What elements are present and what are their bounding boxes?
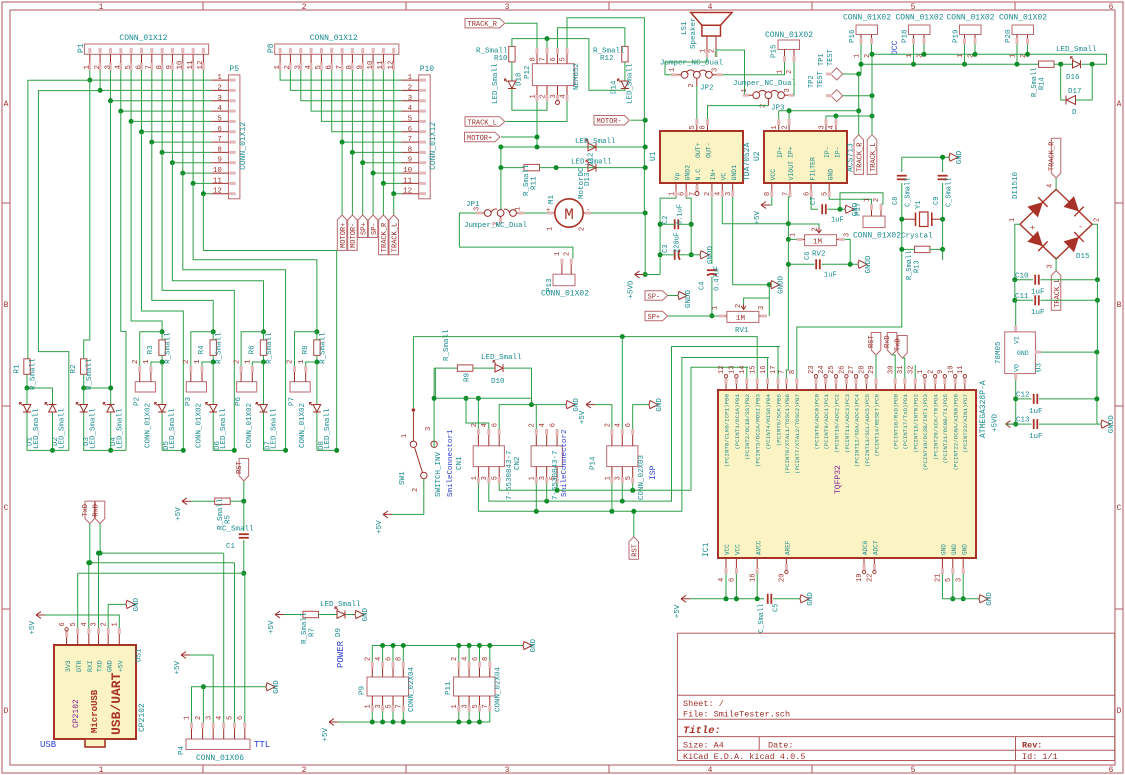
wire LED D18 loop to P12 pin2	[512, 89, 547, 111]
svg-text:3: 3	[818, 125, 826, 129]
connector P1 CONN_01X12	[84, 44, 208, 54]
svg-text:R_Small: R_Small	[216, 332, 224, 364]
svg-text:6: 6	[729, 578, 737, 582]
svg-text:6: 6	[679, 192, 687, 196]
wire MOTOR+ junction	[501, 136, 537, 138]
capacitor C4 0.47uF	[707, 269, 717, 271]
junction at 1061,64	[1058, 62, 1063, 67]
wire U2 IP- pins to TRACK_L column	[826, 116, 872, 119]
junction at 337,450	[334, 448, 339, 453]
wire P12 pin6 loop to R12 top	[558, 28, 625, 48]
wire U2 FILTER to C7	[811, 197, 818, 209]
wire JP3 pin2 to U1 pin8	[767, 99, 769, 106]
svg-text:D: D	[4, 707, 9, 716]
junction at 872,54	[870, 52, 875, 57]
wire	[1097, 423, 1101, 425]
wire	[121, 111, 126, 450]
junction at 757,599	[755, 596, 760, 601]
junction at 479,646	[477, 643, 482, 648]
junction dots P8 rows 7-12	[340, 140, 345, 145]
wire	[1027, 44, 1029, 54]
junction at 286,450	[283, 448, 288, 453]
svg-text:27: 27	[848, 366, 856, 374]
svg-text:1: 1	[298, 359, 306, 364]
wire	[393, 194, 395, 215]
svg-text:24: 24	[818, 366, 826, 374]
wire ladder bottom loop	[84, 413, 111, 451]
svg-text:TRACK_R: TRACK_R	[468, 21, 498, 29]
junction at 712,316	[709, 313, 714, 318]
LED D2	[27, 388, 53, 405]
svg-text:C_Small: C_Small	[946, 178, 954, 207]
svg-text:3: 3	[375, 704, 383, 708]
svg-text:7-5530843-7: 7-5530843-7	[552, 450, 560, 500]
svg-text:GND: GND	[656, 398, 664, 412]
wire	[183, 173, 286, 450]
svg-text:7-5530843-7: 7-5530843-7	[506, 450, 514, 500]
svg-text:R12: R12	[600, 55, 614, 63]
svg-text:LED_Small: LED_Small	[324, 408, 332, 449]
svg-text:CONN_01X12: CONN_01X12	[429, 122, 438, 170]
wire	[788, 111, 790, 119]
svg-text:P2: P2	[134, 397, 142, 406]
svg-text:+: +	[1030, 224, 1035, 233]
svg-text:(PCINT7/XTAL2/TOSC2)PB7: (PCINT7/XTAL2/TOSC2)PB7	[794, 393, 801, 474]
svg-text:8: 8	[408, 146, 413, 154]
svg-text:R_Small: R_Small	[86, 358, 94, 390]
svg-text:3V3: 3V3	[65, 660, 72, 672]
svg-text:RxD: RxD	[884, 335, 892, 348]
svg-text:1: 1	[274, 65, 282, 70]
svg-text:19: 19	[856, 574, 864, 582]
potentiometer RV2 1M	[805, 235, 837, 246]
wire	[244, 573, 246, 722]
svg-text:M: M	[564, 206, 574, 224]
test point TP1	[831, 68, 843, 80]
capacitor C1 C_Small	[243, 501, 245, 531]
power +5VD arrow left of C13	[1006, 421, 1015, 428]
svg-text:LED_Small: LED_Small	[492, 63, 500, 104]
connector CN1 SmileConnector1	[473, 446, 504, 467]
svg-text:2: 2	[604, 423, 612, 427]
junction at 352,152	[350, 150, 355, 155]
connector P8 CONN_01X12	[275, 44, 399, 54]
svg-text:VCC: VCC	[735, 544, 742, 555]
wire	[1016, 398, 1032, 400]
wire	[696, 86, 698, 119]
svg-text:3: 3	[408, 95, 413, 103]
svg-text:(PCINT18/INT0)PD2: (PCINT18/INT0)PD2	[913, 393, 920, 453]
svg-text:5: 5	[822, 192, 830, 196]
svg-text:P5: P5	[229, 65, 239, 74]
svg-text:R11: R11	[531, 176, 539, 190]
wire U1 Vp to cap columns	[660, 197, 676, 275]
svg-text:D17: D17	[1068, 88, 1082, 96]
svg-text:LED_Small: LED_Small	[117, 408, 125, 449]
junction at 244,573	[241, 571, 246, 576]
junction at 788,239	[786, 237, 791, 242]
wire	[26, 374, 28, 388]
junction at 645,147	[643, 145, 648, 150]
svg-text:5: 5	[472, 704, 480, 708]
svg-text:4: 4	[539, 423, 547, 427]
junction at 902,249	[899, 247, 904, 252]
svg-text:5: 5	[315, 65, 323, 70]
svg-text:18: 18	[749, 574, 757, 582]
svg-text:2: 2	[579, 227, 587, 231]
junction at 363,163	[360, 160, 365, 165]
svg-text:3: 3	[758, 306, 766, 310]
junction at 914,64	[911, 62, 916, 67]
svg-text:+5VD: +5VD	[992, 413, 1000, 432]
junction at 459,646	[456, 643, 461, 648]
connector P3 CONN_01X02	[186, 382, 206, 392]
junction at 537,137	[535, 135, 540, 140]
svg-text:C9: C9	[933, 197, 941, 205]
svg-text:(PCINT14/RESET)PC6: (PCINT14/RESET)PC6	[873, 393, 880, 456]
wire P1 row1 column to R2	[84, 80, 90, 359]
svg-text:5: 5	[217, 115, 222, 123]
svg-text:10: 10	[367, 60, 375, 70]
wire	[212, 413, 214, 451]
svg-text:1: 1	[777, 70, 785, 74]
hier label TRACK_L vertical	[867, 135, 877, 175]
wire TRACK_R to P12	[506, 23, 538, 48]
svg-text:U1: U1	[649, 151, 658, 161]
svg-text:GND: GND	[106, 660, 113, 672]
svg-text:USB: USB	[40, 740, 57, 750]
svg-text:2: 2	[704, 192, 712, 196]
svg-text:(PCINT0/CLK0/ICP1)PB0: (PCINT0/CLK0/ICP1)PB0	[723, 393, 730, 467]
junction at 383,183	[381, 181, 386, 186]
svg-text:12: 12	[213, 188, 222, 196]
svg-text:3: 3	[1047, 264, 1055, 268]
connector P5 CONN_01X12	[228, 75, 240, 199]
svg-text:CONN_01X02: CONN_01X02	[853, 232, 901, 241]
svg-text:78M05: 78M05	[995, 341, 1003, 364]
wire	[363, 70, 402, 162]
junction at 162,362	[160, 360, 165, 365]
svg-text:TRACK_R: TRACK_R	[381, 222, 389, 252]
svg-text:JP2: JP2	[700, 85, 714, 93]
svg-text:TxD: TxD	[895, 338, 903, 351]
capacitor C5 C_Small	[767, 594, 769, 604]
wire	[142, 70, 212, 131]
wire	[263, 413, 265, 451]
svg-text:1: 1	[365, 704, 373, 708]
svg-text:1: 1	[184, 716, 192, 720]
capacitor C12 1uF	[1013, 396, 1018, 401]
wire U3 GND right	[1035, 351, 1041, 353]
junction at 469,722	[467, 720, 472, 725]
wire	[161, 413, 163, 451]
svg-text:CONN_01X12: CONN_01X12	[310, 34, 358, 43]
junction at 234,450	[232, 448, 237, 453]
svg-text:RST: RST	[868, 335, 876, 348]
junction at 111,450	[108, 448, 113, 453]
LED D18	[511, 62, 513, 81]
svg-text:U2: U2	[753, 151, 762, 161]
wire bus TxD row to P4	[90, 562, 235, 564]
svg-text:TRACK_R: TRACK_R	[1048, 141, 1056, 171]
junction at 203,194	[201, 191, 206, 196]
svg-text:11: 11	[403, 177, 413, 185]
wire	[532, 404, 567, 406]
junction at 193,183	[191, 181, 196, 186]
hier labels under P10: MOTOR+ MOTOR- SP+ SP- TRACK_R TRACK_L	[341, 142, 343, 215]
svg-text:U3: U3	[1036, 362, 1044, 372]
crystal Y1	[920, 212, 929, 227]
wire	[162, 70, 211, 152]
svg-text:12: 12	[388, 60, 396, 69]
wire	[660, 254, 675, 256]
svg-text:2: 2	[1094, 218, 1102, 222]
svg-text:P3: P3	[185, 396, 193, 406]
svg-text:1: 1	[700, 49, 708, 53]
svg-text:Id: 1/1: Id: 1/1	[1022, 752, 1058, 762]
svg-text:TRACK_L: TRACK_L	[468, 119, 497, 127]
svg-text:1: 1	[864, 198, 872, 202]
wire P1 row3 descender to D4 branch	[110, 101, 112, 388]
wire R9 row to CN1	[435, 397, 531, 399]
svg-text:5: 5	[689, 125, 697, 129]
svg-text:3: 3	[205, 716, 213, 720]
svg-text:1: 1	[771, 125, 779, 129]
svg-text:C4: C4	[699, 282, 707, 290]
svg-text:1: 1	[143, 359, 151, 364]
svg-text:3: 3	[295, 65, 303, 70]
svg-text:2: 2	[873, 198, 881, 202]
svg-text:LED_Small: LED_Small	[627, 63, 635, 104]
svg-text:12: 12	[403, 188, 412, 196]
junction at 213,362	[211, 360, 216, 365]
svg-text:IC1: IC1	[702, 542, 711, 557]
svg-text:ADC6: ADC6	[862, 540, 869, 555]
svg-text:C13: C13	[1016, 417, 1030, 425]
svg-text:ATMEGA328P-A: ATMEGA328P-A	[979, 380, 988, 438]
wire	[316, 413, 318, 451]
wire	[892, 355, 895, 378]
junction at 1097,300	[1095, 298, 1100, 303]
svg-text:3: 3	[505, 3, 510, 12]
svg-text:1uF: 1uF	[1031, 309, 1045, 317]
wire P3 pin1 jog	[202, 362, 213, 366]
wire row R11/D13	[500, 147, 502, 168]
svg-text:JP1: JP1	[466, 201, 480, 209]
junction at 52,450	[50, 448, 55, 453]
svg-text:Jumper_NC_Dual: Jumper_NC_Dual	[733, 80, 797, 88]
svg-text:0.47uF: 0.47uF	[714, 266, 722, 291]
wire	[321, 70, 401, 121]
svg-text:1: 1	[194, 359, 202, 364]
svg-text:P7: P7	[289, 397, 297, 406]
svg-text:1: 1	[112, 622, 120, 626]
junction at 501,147	[498, 145, 503, 150]
svg-text:(PCINT22/OC0A/AIN0)PD6: (PCINT22/OC0A/AIN0)PD6	[953, 393, 960, 470]
wire	[1082, 63, 1107, 65]
wire	[311, 70, 401, 111]
svg-text:GNDD: GNDD	[778, 275, 786, 294]
svg-text:6: 6	[625, 423, 633, 427]
connector P17 CONN_01X02	[863, 216, 885, 228]
junction at 943,249	[940, 247, 945, 252]
wire crystal right column stub	[942, 249, 944, 260]
wire	[768, 285, 770, 298]
wire P16 columns down to TP labels	[859, 64, 861, 74]
wire	[535, 483, 537, 511]
svg-text:R8: R8	[302, 345, 310, 354]
power GND arrow right of C7	[845, 205, 854, 213]
svg-text:1: 1	[84, 65, 92, 70]
wire	[756, 574, 758, 599]
wire	[1006, 423, 1016, 425]
junction at 111,388	[108, 386, 113, 391]
svg-text:20: 20	[779, 574, 787, 582]
junction at 172,163	[170, 160, 175, 165]
svg-text:2: 2	[408, 84, 413, 92]
wire	[382, 712, 384, 723]
svg-text:1: 1	[712, 306, 720, 310]
wire P2 pin1 jog	[151, 362, 162, 366]
svg-text:5: 5	[385, 704, 393, 708]
connector P15 CONN_01X02	[778, 40, 800, 50]
svg-text:ADC7: ADC7	[873, 540, 880, 555]
junction at 645,274	[643, 272, 648, 277]
wire	[162, 152, 234, 450]
wire	[191, 500, 215, 502]
svg-text:5: 5	[945, 578, 953, 582]
svg-text:Jumper_NC_Dual: Jumper_NC_Dual	[464, 222, 528, 230]
svg-text:RXI: RXI	[87, 660, 94, 672]
svg-text:P20: P20	[1005, 29, 1013, 43]
wire IC GND pins to GND arrow	[941, 574, 943, 599]
svg-text:CP2102: CP2102	[72, 699, 81, 728]
wire	[708, 106, 769, 119]
svg-text:4: 4	[305, 65, 313, 70]
svg-text:5: 5	[227, 716, 235, 720]
svg-text:1: 1	[515, 207, 523, 211]
svg-text:LED_Small: LED_Small	[1056, 46, 1097, 54]
wire bus DTR row to P4	[78, 572, 245, 574]
junction at 924,54	[922, 52, 927, 57]
svg-text:7: 7	[482, 704, 490, 708]
svg-text:9: 9	[217, 157, 222, 165]
svg-text:1: 1	[668, 192, 676, 196]
wire crystal columns	[901, 157, 903, 172]
svg-text:8: 8	[764, 192, 772, 196]
junction at 691,255	[689, 252, 694, 257]
wire R1 loop extension	[53, 449, 69, 451]
wire U2 VIOUT down IC pin7 column	[786, 197, 790, 378]
LED D1	[26, 388, 28, 405]
wire	[479, 712, 481, 723]
svg-text:5: 5	[70, 622, 78, 626]
wire	[725, 574, 727, 599]
connector P4 CONN_01X06 TTL	[186, 739, 250, 750]
wire	[434, 368, 436, 398]
junction at 788,224	[786, 221, 791, 226]
junction at 98,553	[96, 551, 101, 556]
svg-text:31: 31	[897, 366, 905, 374]
wire RV2 pin1 to column	[788, 238, 796, 240]
wire	[412, 337, 414, 408]
connector CN2 SmileConnector2	[531, 446, 562, 467]
resistor R9	[434, 367, 457, 369]
junction at 789,111	[787, 108, 792, 113]
svg-text:R5: R5	[225, 514, 233, 524]
junction at 1017,64	[1015, 62, 1020, 67]
svg-text:30: 30	[887, 366, 895, 374]
svg-text:IP-: IP-	[835, 146, 842, 158]
svg-text:LED_Small: LED_Small	[220, 408, 228, 449]
svg-text:8: 8	[700, 125, 708, 129]
svg-text:CONN_01X02: CONN_01X02	[144, 403, 152, 448]
hier label TRACK_R vertical	[854, 135, 864, 175]
svg-text:MOTOR+: MOTOR+	[340, 223, 348, 248]
svg-text:VCC: VCC	[770, 169, 777, 181]
svg-text:AREF: AREF	[785, 540, 792, 555]
wire JP1 loop to P13	[459, 213, 573, 259]
svg-text:Vp: Vp	[674, 173, 681, 181]
capacitor C6 1uF	[815, 259, 817, 269]
wire	[822, 263, 859, 265]
svg-text:5: 5	[911, 3, 916, 12]
wire	[352, 70, 401, 152]
svg-text:KiCad E.D.A. kicad 4.0.5: KiCad E.D.A. kicad 4.0.5	[683, 752, 805, 762]
svg-text:C5: C5	[773, 604, 781, 612]
wire	[930, 248, 943, 250]
wire SW1 pin2 to +5V	[392, 479, 424, 515]
svg-text:+5V: +5V	[174, 660, 182, 674]
junction at 141,132	[139, 129, 144, 134]
svg-text:B: B	[4, 301, 9, 310]
svg-text:(PCINT8/ADC0)PC0: (PCINT8/ADC0)PC0	[813, 393, 820, 449]
wire	[479, 646, 481, 662]
svg-text:NEM652: NEM652	[573, 63, 581, 90]
svg-text:(PCINT3/OC2A/MOSI)PB3: (PCINT3/OC2A/MOSI)PB3	[755, 393, 762, 467]
wire	[373, 70, 401, 173]
LED D8	[316, 362, 318, 405]
wire	[902, 248, 915, 250]
svg-text:10: 10	[947, 366, 955, 374]
svg-text:P18: P18	[902, 29, 910, 43]
junction at 393,646	[391, 643, 396, 648]
junction at 152,142	[149, 140, 154, 145]
svg-text:SmileConnector1: SmileConnector1	[447, 429, 455, 497]
wire	[871, 54, 873, 95]
svg-text:10: 10	[213, 167, 223, 175]
wire	[1092, 224, 1097, 280]
svg-text:IP+: IP+	[777, 146, 784, 158]
wire	[962, 574, 964, 599]
junction at 633,490	[630, 488, 635, 493]
wire	[131, 121, 162, 331]
svg-text:Size: A4: Size: A4	[683, 740, 724, 750]
svg-text:2: 2	[471, 423, 479, 427]
svg-text:P15: P15	[771, 44, 779, 58]
svg-text:R14: R14	[1039, 77, 1047, 90]
wire	[263, 332, 265, 340]
junction at 1097,399	[1094, 396, 1099, 401]
svg-text:3: 3	[712, 68, 720, 72]
junction at 660,255	[658, 252, 663, 257]
svg-text:(PCINT9/ADC1)PC1: (PCINT9/ADC1)PC1	[823, 393, 830, 449]
wire TP columns	[858, 74, 860, 135]
svg-text:GND: GND	[941, 544, 948, 555]
wire	[212, 355, 214, 362]
wire right bus down to +5VD	[644, 213, 646, 275]
junction at 244,501	[241, 499, 246, 504]
